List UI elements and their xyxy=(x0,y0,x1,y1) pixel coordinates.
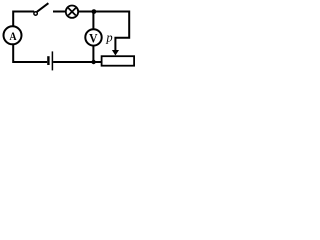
rheostat slider arrowhead xyxy=(112,50,119,56)
wire: voltmeter bottom stub xyxy=(92,46,94,62)
battery negative plate (short thick) xyxy=(47,56,49,65)
wire: ammeter bottom stub + bottom-left corner run to battery xyxy=(13,44,47,62)
wire: lamp to top-right corner, down right side, left and down to slider xyxy=(78,12,129,51)
battery positive plate (long thin) xyxy=(51,51,53,70)
voltmeter V xyxy=(85,29,101,45)
switch S (open pivot circle) xyxy=(34,12,38,16)
svg-text:p: p xyxy=(105,31,112,45)
ammeter A xyxy=(4,26,22,44)
switch blade xyxy=(37,3,49,12)
wire: switch fixed contact to lamp xyxy=(53,11,66,13)
svg-text:A: A xyxy=(9,31,17,43)
svg-text:V: V xyxy=(89,31,98,46)
node: top junction dot xyxy=(92,9,97,14)
wire: ammeter top stub + top-left corner run to switch left terminal xyxy=(13,12,34,27)
wire: battery to rheostat left terminal xyxy=(53,61,101,63)
node: bottom junction dot xyxy=(91,60,95,64)
lamp (circle with X) xyxy=(66,6,78,18)
wire: voltmeter top stub xyxy=(92,12,94,30)
rheostat body xyxy=(102,56,135,65)
